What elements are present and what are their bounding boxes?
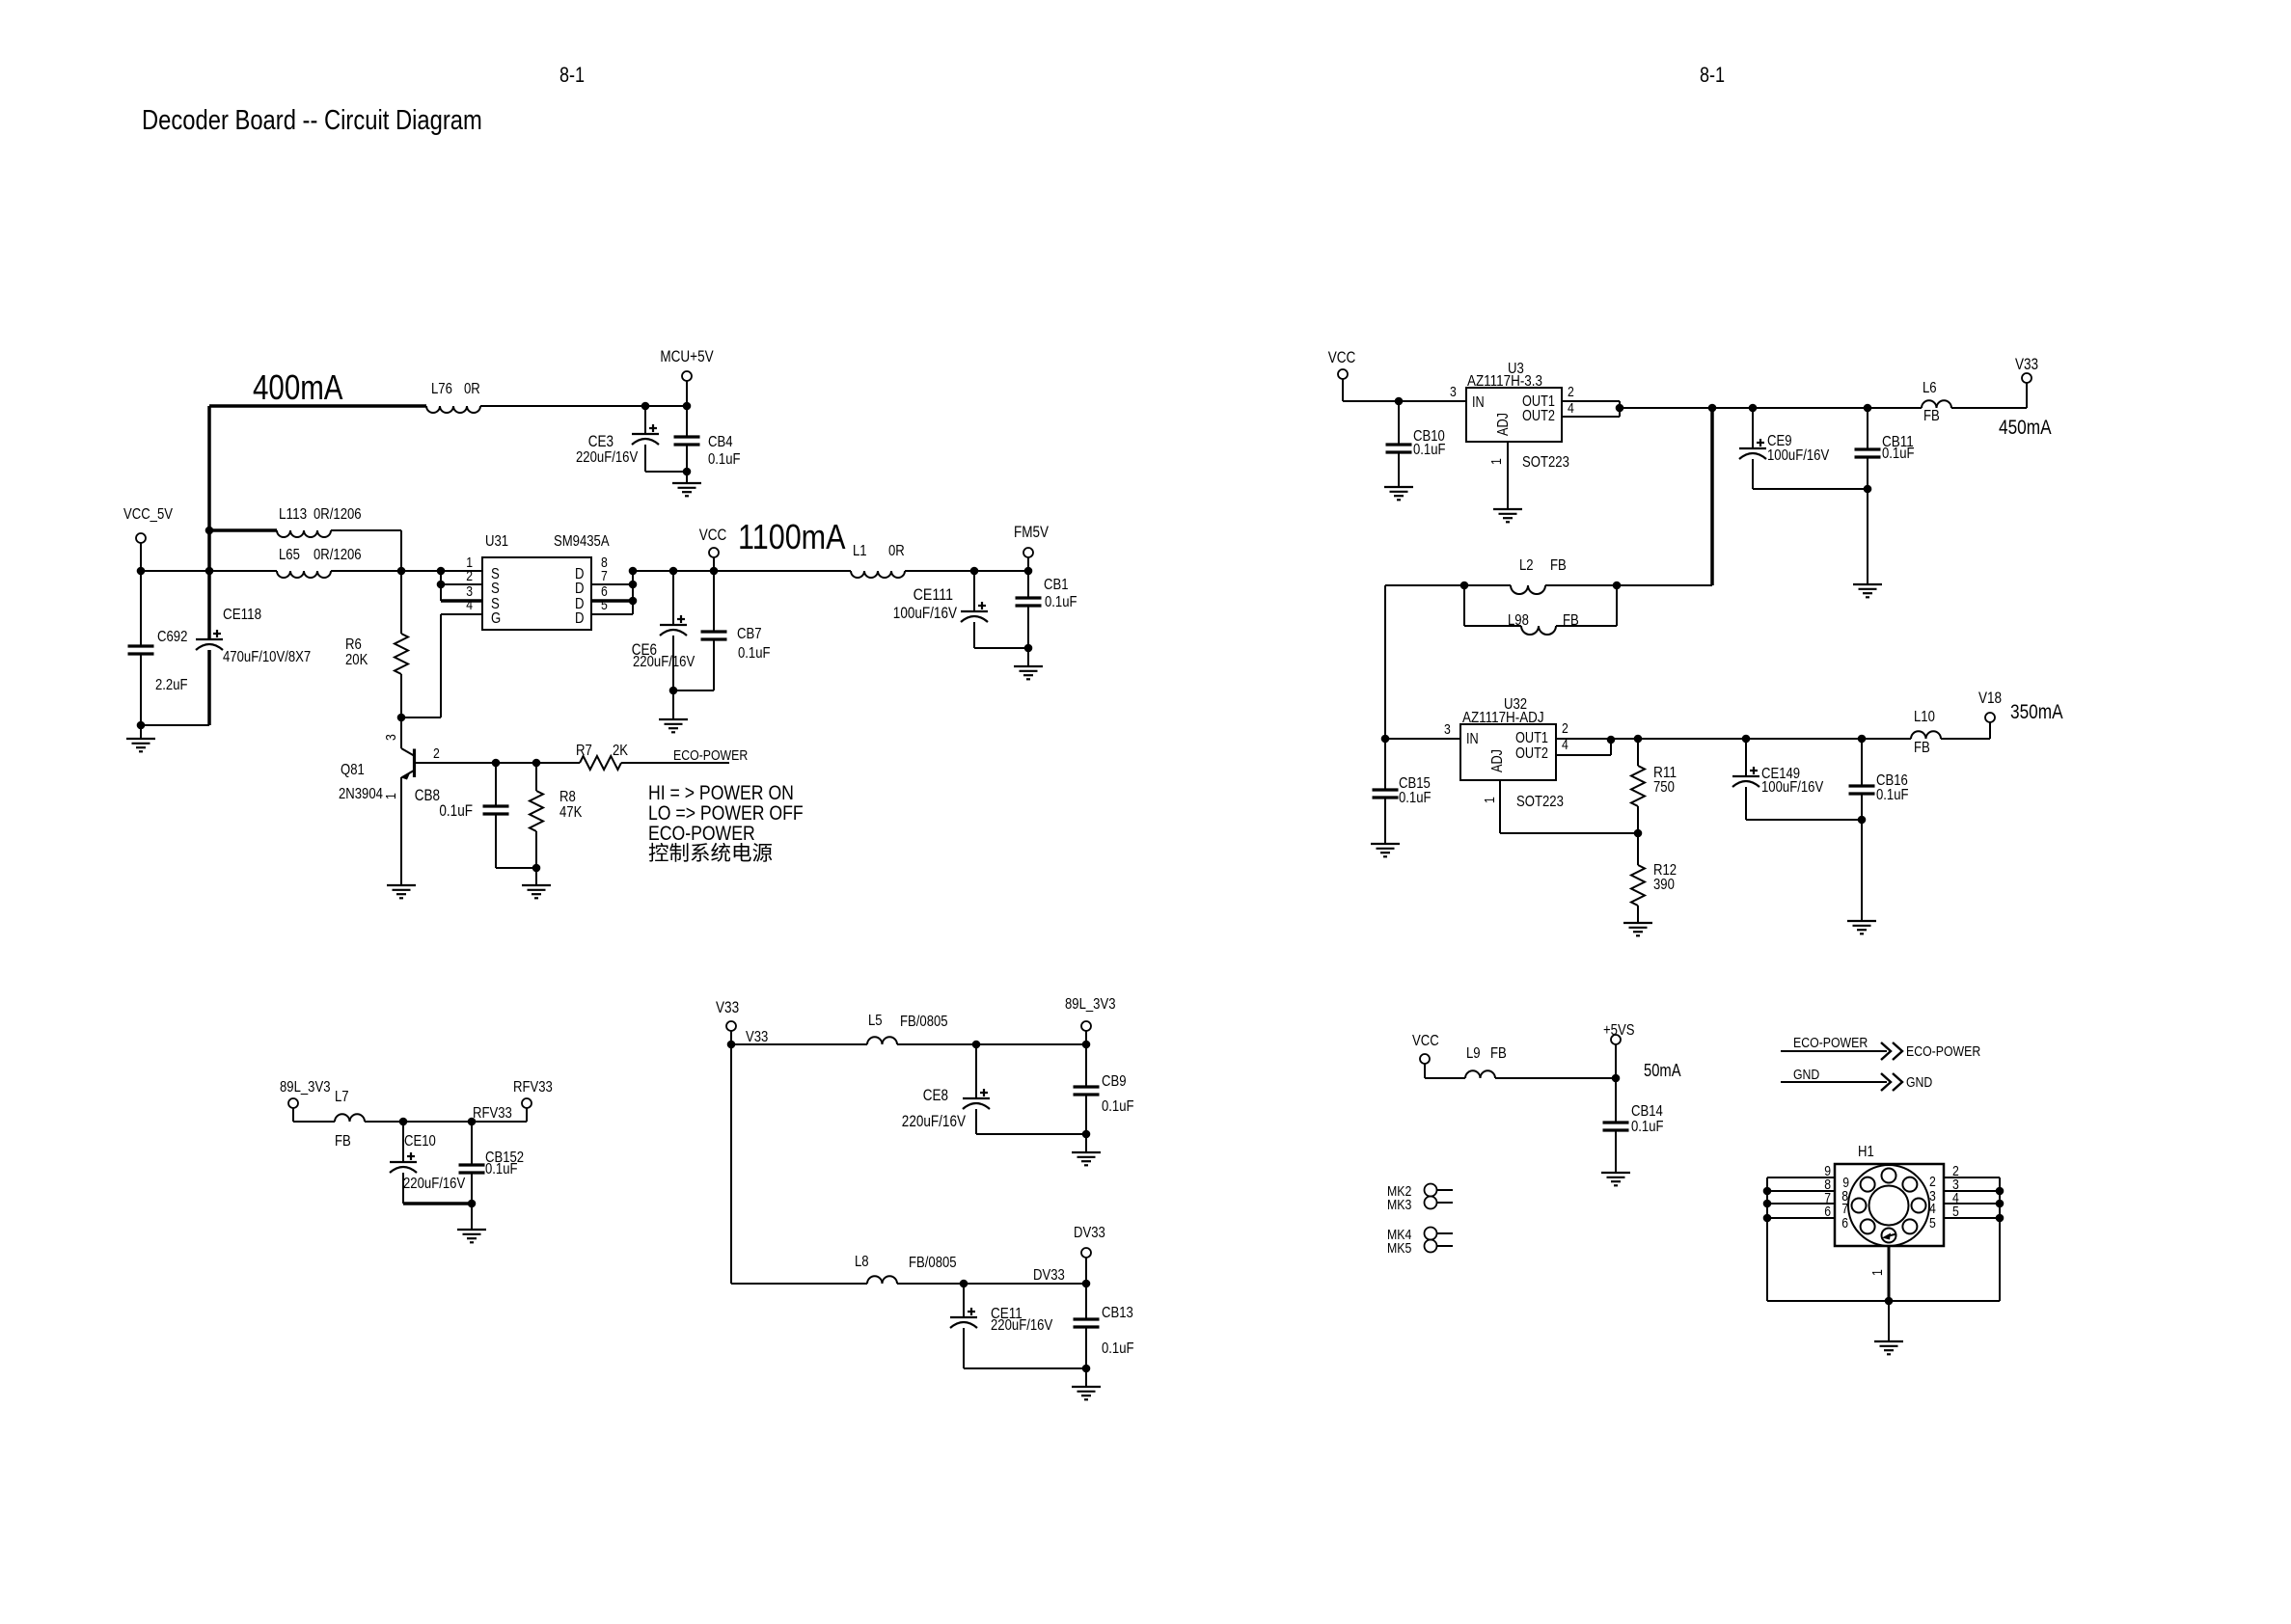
ground under Q81 emitter bbox=[387, 885, 416, 898]
svg-text:V33: V33 bbox=[716, 999, 739, 1016]
svg-text:0R: 0R bbox=[464, 381, 480, 397]
svg-text:0.1uF: 0.1uF bbox=[1045, 594, 1077, 610]
svg-text:VCC_5V: VCC_5V bbox=[123, 506, 173, 523]
net label RFV33 bbox=[473, 1105, 512, 1122]
ground under CB15 bbox=[1371, 844, 1400, 856]
resistor R11 750 bbox=[1631, 739, 1677, 833]
U31 pin 2 wire bbox=[437, 568, 482, 588]
wire VCC rail right of U31 bbox=[633, 567, 851, 576]
U3 ADJ pin 1 to ground bbox=[1488, 442, 1569, 522]
svg-text:0R/1206: 0R/1206 bbox=[314, 506, 362, 523]
svg-text:0.1uF: 0.1uF bbox=[1399, 790, 1432, 806]
marker MK2 bbox=[1387, 1183, 1453, 1200]
svg-text:G: G bbox=[491, 610, 501, 627]
svg-text:FB: FB bbox=[1914, 740, 1930, 756]
svg-text:FB: FB bbox=[1550, 557, 1567, 574]
svg-text:0.1uF: 0.1uF bbox=[1413, 442, 1446, 458]
svg-text:CB1: CB1 bbox=[1044, 577, 1069, 593]
svg-text:0.1uF: 0.1uF bbox=[708, 451, 741, 468]
svg-text:220uF/16V: 220uF/16V bbox=[403, 1176, 465, 1192]
svg-text:CB13: CB13 bbox=[1102, 1305, 1133, 1321]
node junction CE11 bbox=[960, 1280, 1091, 1288]
IC U31 SM9435A bbox=[482, 533, 610, 630]
inductor L65 0R/1206 bbox=[277, 547, 362, 578]
capacitor CE9 100uF/16V bbox=[1739, 408, 1871, 493]
svg-text:ECO-POWER: ECO-POWER bbox=[648, 822, 755, 845]
U32 OUT1/OUT2 wires bbox=[1556, 736, 1615, 755]
capacitor CB16 0.1uF bbox=[1849, 739, 1909, 820]
svg-text:H1: H1 bbox=[1858, 1144, 1874, 1160]
svg-text:GND: GND bbox=[1906, 1074, 1932, 1091]
capacitor CE3 220uF/16V bbox=[576, 406, 659, 472]
ground under CB14 bbox=[1601, 1173, 1630, 1185]
net label V33 bbox=[746, 1029, 768, 1045]
ground under CB9 bbox=[1072, 1134, 1101, 1165]
inductor L10 FB bbox=[1911, 709, 1990, 756]
svg-text:D: D bbox=[575, 581, 585, 597]
net VCC_5V terminal bbox=[123, 506, 173, 571]
svg-text:5: 5 bbox=[601, 597, 608, 613]
node junction CE8 bbox=[972, 1041, 1091, 1049]
capacitor CB11 0.1uF bbox=[1855, 408, 1915, 489]
net FM5V terminal bbox=[1014, 524, 1049, 571]
svg-text:GND: GND bbox=[1793, 1067, 1819, 1083]
note HI/LO power text bbox=[648, 781, 804, 862]
capacitor CE111 100uF/16V bbox=[893, 571, 1032, 652]
svg-text:3: 3 bbox=[383, 734, 399, 741]
svg-text:ECO-POWER: ECO-POWER bbox=[1793, 1035, 1868, 1051]
capacitor CB152 0.1uF bbox=[459, 1122, 525, 1204]
wire thick drop to L2 bbox=[1617, 408, 1712, 585]
capacitor CB13 0.1uF bbox=[1074, 1284, 1134, 1368]
capacitor CE6 220uF/16V bbox=[632, 571, 695, 690]
svg-text:SM9435A: SM9435A bbox=[554, 533, 610, 550]
svg-text:CE3: CE3 bbox=[588, 433, 614, 450]
svg-text:1: 1 bbox=[1482, 797, 1498, 803]
svg-text:CB8: CB8 bbox=[415, 787, 440, 804]
H1 pin 9 wire bbox=[1767, 1163, 1849, 1191]
H1 left bus wire bbox=[1763, 1177, 1772, 1301]
capacitor CE118 470uF/10V/8X7 bbox=[196, 571, 311, 725]
net V33 terminal (top) bbox=[716, 999, 739, 1048]
resistor R12 390 bbox=[1631, 833, 1677, 923]
svg-text:FB: FB bbox=[335, 1133, 351, 1150]
inductor L2 FB bbox=[1460, 557, 1622, 594]
capacitor CB14 0.1uF bbox=[1603, 1078, 1664, 1173]
inductor L113 0R/1206 bbox=[205, 506, 401, 571]
wire pin4 G link from Q81 collector bbox=[401, 614, 441, 717]
svg-text:20K: 20K bbox=[345, 652, 368, 668]
svg-text:0.1uF: 0.1uF bbox=[485, 1161, 518, 1177]
net DV33 terminal bbox=[1074, 1225, 1105, 1284]
svg-text:CB14: CB14 bbox=[1631, 1103, 1663, 1120]
ground under CB1 bbox=[1014, 648, 1043, 679]
wire 400mA feed (thick) bbox=[209, 406, 426, 571]
marker MK5 bbox=[1387, 1240, 1453, 1258]
svg-text:OUT1: OUT1 bbox=[1515, 730, 1548, 746]
net +5VS terminal bbox=[1603, 1022, 1635, 1078]
capacitor C692 2.2uF bbox=[128, 571, 188, 725]
H1 pin 8 wire bbox=[1767, 1177, 1848, 1204]
svg-text:5: 5 bbox=[1929, 1215, 1936, 1232]
svg-text:C692: C692 bbox=[157, 629, 187, 645]
svg-text:220uF/16V: 220uF/16V bbox=[576, 449, 638, 466]
svg-text:ADJ: ADJ bbox=[1495, 413, 1512, 436]
svg-text:390: 390 bbox=[1653, 877, 1675, 893]
svg-text:1: 1 bbox=[1488, 458, 1505, 465]
svg-text:S: S bbox=[491, 581, 500, 597]
node junction L65/R6 bbox=[397, 567, 406, 576]
svg-text:1: 1 bbox=[383, 793, 399, 799]
node junction CB10 bbox=[1395, 397, 1404, 406]
ground under CB16 bbox=[1847, 820, 1876, 934]
resistor R8 47K bbox=[530, 763, 583, 885]
wire VCC_5V rail bbox=[137, 567, 482, 576]
svg-text:L5: L5 bbox=[868, 1013, 883, 1029]
U31 pin 4 wire bbox=[441, 597, 482, 614]
wire U3 output rail bbox=[1620, 404, 1922, 413]
svg-text:220uF/16V: 220uF/16V bbox=[633, 654, 695, 670]
svg-text:100uF/16V: 100uF/16V bbox=[893, 605, 957, 622]
svg-text:2K: 2K bbox=[613, 743, 628, 759]
svg-text:L9: L9 bbox=[1466, 1045, 1481, 1062]
port GND output bbox=[1781, 1067, 1932, 1091]
svg-text:V18: V18 bbox=[1978, 690, 2002, 707]
svg-text:MK5: MK5 bbox=[1387, 1240, 1411, 1257]
resistor R7 2K bbox=[576, 743, 628, 770]
svg-text:3: 3 bbox=[1444, 721, 1451, 738]
svg-text:CE118: CE118 bbox=[223, 607, 261, 623]
svg-text:L113: L113 bbox=[279, 506, 307, 523]
capacitor CB15 0.1uF bbox=[1373, 739, 1432, 844]
wire V33 drop to L8 bbox=[731, 1044, 867, 1284]
U31 pin 3 wire bbox=[441, 571, 482, 601]
resistor R6 20K bbox=[345, 571, 408, 717]
svg-text:L8: L8 bbox=[855, 1254, 869, 1270]
H1 pin 4 wire bbox=[1929, 1190, 2000, 1217]
svg-text:4: 4 bbox=[1568, 400, 1574, 417]
svg-text:CE111: CE111 bbox=[914, 586, 953, 604]
inductor L98 FB (parallel) bbox=[1464, 585, 1617, 635]
svg-text:1100mA: 1100mA bbox=[738, 517, 846, 556]
svg-text:IN: IN bbox=[1472, 394, 1485, 411]
svg-text:V33: V33 bbox=[2015, 356, 2038, 373]
svg-text:0.1uF: 0.1uF bbox=[1631, 1119, 1664, 1135]
inductor L5 FB/0805 bbox=[867, 1013, 1086, 1044]
inductor L6 FB bbox=[1922, 380, 2027, 424]
transistor Q81 2N3904 bbox=[339, 714, 440, 885]
svg-text:OUT2: OUT2 bbox=[1515, 745, 1548, 762]
ground under H1 bbox=[1874, 1341, 1903, 1354]
marker MK3 bbox=[1387, 1197, 1453, 1214]
wire U32 output rail bbox=[1611, 735, 1911, 744]
capacitor CB8 0.1uF bbox=[415, 763, 541, 872]
svg-text:RFV33: RFV33 bbox=[473, 1105, 512, 1122]
IC U32 AZ1117H-ADJ bbox=[1444, 696, 1568, 780]
label 350mA bbox=[2010, 701, 2063, 723]
svg-text:Q81: Q81 bbox=[341, 762, 365, 778]
capacitor CB4 0.1uF bbox=[674, 406, 741, 472]
H1 pin 7 wire bbox=[1767, 1190, 1848, 1217]
svg-text:220uF/16V: 220uF/16V bbox=[902, 1113, 966, 1130]
svg-text:4: 4 bbox=[466, 597, 473, 613]
capacitor CE11 220uF/16V bbox=[950, 1284, 1090, 1372]
ground under R8 bbox=[522, 885, 551, 898]
svg-text:CB7: CB7 bbox=[737, 626, 762, 642]
capacitor CB10 0.1uF bbox=[1386, 401, 1446, 487]
svg-text:750: 750 bbox=[1653, 779, 1675, 796]
label 400mA bbox=[253, 367, 343, 407]
svg-text:U31: U31 bbox=[485, 533, 508, 550]
svg-text:8-1: 8-1 bbox=[559, 63, 585, 87]
svg-text:0R: 0R bbox=[888, 543, 905, 559]
svg-text:6: 6 bbox=[1841, 1215, 1848, 1232]
svg-text:50mA: 50mA bbox=[1644, 1061, 1681, 1080]
connector H1 body bbox=[1835, 1144, 1944, 1246]
ground under CB10 bbox=[1384, 487, 1413, 500]
svg-text:FB/0805: FB/0805 bbox=[909, 1255, 957, 1271]
svg-text:400mA: 400mA bbox=[253, 367, 343, 407]
svg-text:FM5V: FM5V bbox=[1014, 524, 1049, 541]
svg-text:89L_3V3: 89L_3V3 bbox=[1065, 996, 1116, 1013]
ground under CB11 bbox=[1853, 489, 1882, 597]
net label DV33 bbox=[1033, 1267, 1065, 1284]
inductor L1 0R bbox=[851, 543, 1032, 578]
svg-text:SOT223: SOT223 bbox=[1522, 454, 1569, 471]
net 89L_3V3 terminal (right) bbox=[1065, 996, 1116, 1044]
H1 bottom wire bbox=[1767, 1297, 2000, 1341]
label 1100mA bbox=[738, 517, 846, 556]
wire to ECO-POWER bbox=[621, 762, 729, 764]
svg-text:47K: 47K bbox=[559, 804, 583, 821]
H1 pin 3 wire bbox=[1929, 1177, 2000, 1204]
svg-text:R6: R6 bbox=[345, 636, 362, 653]
ground under R12 bbox=[1623, 923, 1652, 935]
U31 pin 5 wire bbox=[591, 597, 633, 614]
wire L2 to U32 input bbox=[1385, 585, 1464, 739]
svg-text:FB: FB bbox=[1490, 1045, 1507, 1062]
svg-text:450mA: 450mA bbox=[1999, 417, 2052, 439]
label 450mA bbox=[1999, 417, 2052, 439]
svg-text:VCC: VCC bbox=[699, 527, 727, 544]
svg-text:1: 1 bbox=[1869, 1269, 1886, 1276]
inductor L8 FB/0805 bbox=[855, 1254, 1086, 1284]
node junction at CE3 bbox=[641, 402, 650, 411]
net 89L_3V3 terminal (left) bbox=[280, 1079, 335, 1122]
wire L76 to MCU+5V node bbox=[480, 405, 687, 407]
U32 ADJ pin 1 wire bbox=[1482, 780, 1642, 837]
svg-text:L65: L65 bbox=[279, 547, 300, 563]
svg-text:L2: L2 bbox=[1519, 557, 1534, 574]
svg-text:100uF/16V: 100uF/16V bbox=[1767, 447, 1829, 464]
svg-text:0R/1206: 0R/1206 bbox=[314, 547, 362, 563]
svg-text:0.1uF: 0.1uF bbox=[1102, 1340, 1134, 1357]
H1 pin 6 wire bbox=[1767, 1204, 1848, 1232]
svg-text:3: 3 bbox=[1450, 384, 1457, 400]
svg-text:2: 2 bbox=[433, 745, 440, 762]
capacitor CB1 0.1uF bbox=[1016, 571, 1077, 648]
node junction U32 input bbox=[1381, 735, 1460, 744]
U31 pin 7 wire bbox=[591, 568, 637, 588]
svg-text:D: D bbox=[575, 610, 585, 627]
svg-text:89L_3V3: 89L_3V3 bbox=[280, 1079, 331, 1096]
svg-text:MCU+5V: MCU+5V bbox=[660, 348, 713, 365]
net VCC terminal (L9) bbox=[1412, 1033, 1465, 1078]
wire Q81 base node bbox=[415, 759, 580, 768]
svg-text:7: 7 bbox=[601, 568, 608, 584]
inductor L9 FB bbox=[1465, 1045, 1620, 1082]
wire CE3 bottom to CB4 bbox=[645, 468, 691, 483]
svg-text:V33: V33 bbox=[746, 1029, 768, 1045]
ground under CB152 bbox=[457, 1204, 486, 1242]
svg-text:CB9: CB9 bbox=[1102, 1073, 1127, 1090]
ground under CE6 bbox=[659, 690, 688, 732]
net VCC terminal (U3 in) bbox=[1328, 349, 1466, 401]
svg-text:8-1: 8-1 bbox=[1700, 63, 1725, 87]
port ECO-POWER output bbox=[1781, 1035, 1980, 1060]
svg-text:CE10: CE10 bbox=[404, 1133, 436, 1150]
svg-text:L10: L10 bbox=[1914, 709, 1935, 725]
svg-text:DV33: DV33 bbox=[1074, 1225, 1105, 1241]
marker MK4 bbox=[1387, 1227, 1453, 1243]
capacitor CE149 100uF/16V bbox=[1732, 739, 1866, 824]
H1 pin 5 wire bbox=[1929, 1204, 2000, 1232]
capacitor CE8 220uF/16V bbox=[902, 1044, 1090, 1138]
ground under CB4 bbox=[672, 483, 701, 496]
node junction at MCU+5V bbox=[683, 402, 692, 411]
wire C692/CE118 bottom bbox=[137, 721, 209, 730]
svg-text:MK3: MK3 bbox=[1387, 1197, 1411, 1213]
svg-text:0.1uF: 0.1uF bbox=[1102, 1098, 1134, 1115]
svg-text:L6: L6 bbox=[1923, 380, 1937, 396]
svg-text:SOT223: SOT223 bbox=[1516, 794, 1564, 810]
svg-text:Decoder Board -- Circuit Diagr: Decoder Board -- Circuit Diagram bbox=[142, 105, 482, 136]
title Decoder Board -- Circuit Diagram bbox=[142, 105, 482, 136]
U31 pin 8 wire bbox=[601, 555, 637, 575]
svg-text:FB: FB bbox=[1923, 408, 1940, 424]
H1 pin 2 wire bbox=[1929, 1163, 2000, 1190]
svg-text:VCC: VCC bbox=[1328, 349, 1356, 366]
IC U3 AZ1117H-3.3 bbox=[1450, 361, 1574, 442]
svg-text:VCC: VCC bbox=[1412, 1033, 1439, 1049]
ground under CB13 bbox=[1072, 1368, 1101, 1399]
net V18 terminal (350mA) bbox=[1978, 690, 2002, 739]
svg-text:2: 2 bbox=[1562, 720, 1568, 737]
svg-text:R8: R8 bbox=[559, 789, 576, 805]
svg-text:350mA: 350mA bbox=[2010, 701, 2063, 723]
inductor L76 0R bbox=[426, 381, 480, 413]
svg-text:2.2uF: 2.2uF bbox=[155, 677, 188, 693]
svg-text:OUT2: OUT2 bbox=[1522, 408, 1555, 424]
svg-text:2: 2 bbox=[466, 568, 473, 584]
capacitor CE10 220uF/16V bbox=[390, 1122, 476, 1207]
svg-text:L7: L7 bbox=[335, 1089, 349, 1105]
net MCU+5V terminal bbox=[660, 348, 713, 406]
net V33 terminal (450mA) bbox=[2015, 356, 2038, 408]
net RFV33 terminal bbox=[513, 1079, 553, 1122]
capacitor CB9 0.1uF bbox=[1074, 1044, 1134, 1134]
svg-text:DV33: DV33 bbox=[1033, 1267, 1065, 1284]
svg-text:2N3904: 2N3904 bbox=[339, 786, 383, 802]
U31 pin 6 wire bbox=[591, 571, 637, 605]
net VCC terminal (U31 out) bbox=[699, 527, 727, 571]
svg-text:ECO-POWER: ECO-POWER bbox=[673, 747, 748, 764]
svg-text:FB/0805: FB/0805 bbox=[900, 1014, 948, 1030]
svg-text:0.1uF: 0.1uF bbox=[1882, 446, 1915, 462]
wire V33 to L5 bbox=[731, 1043, 867, 1045]
page number 8-1 (left) bbox=[559, 63, 585, 87]
net label ECO-POWER bbox=[673, 747, 748, 764]
svg-text:L76: L76 bbox=[431, 381, 452, 397]
svg-text:0.1uF: 0.1uF bbox=[439, 802, 473, 820]
svg-text:470uF/10V/8X7: 470uF/10V/8X7 bbox=[223, 649, 311, 665]
svg-text:0.1uF: 0.1uF bbox=[1876, 787, 1909, 803]
svg-text:ECO-POWER: ECO-POWER bbox=[1906, 1043, 1980, 1060]
H1 pin 1 wire bbox=[1869, 1246, 1889, 1301]
svg-text:L1: L1 bbox=[853, 543, 867, 559]
U3 OUT1/OUT2 wires bbox=[1562, 401, 1623, 417]
svg-text:ADJ: ADJ bbox=[1489, 749, 1506, 772]
svg-text:100uF/16V: 100uF/16V bbox=[1761, 779, 1823, 796]
H1 right bus wire bbox=[1996, 1177, 2005, 1301]
node junctions RFV33 rail bbox=[399, 1118, 477, 1126]
ground under C692 bbox=[126, 725, 155, 751]
svg-text:220uF/16V: 220uF/16V bbox=[991, 1317, 1052, 1334]
svg-text:CB4: CB4 bbox=[708, 434, 733, 450]
inductor L7 FB bbox=[335, 1089, 527, 1150]
capacitor CB7 0.1uF bbox=[669, 571, 771, 694]
svg-text:2: 2 bbox=[1568, 384, 1574, 400]
svg-text:0.1uF: 0.1uF bbox=[738, 645, 771, 662]
page number 8-1 (right) bbox=[1700, 63, 1725, 87]
svg-text:CE8: CE8 bbox=[923, 1087, 948, 1104]
U31 pin 1 wire bbox=[437, 555, 473, 575]
svg-text:IN: IN bbox=[1466, 731, 1479, 747]
svg-text:RFV33: RFV33 bbox=[513, 1079, 553, 1096]
label 50mA bbox=[1644, 1061, 1681, 1080]
